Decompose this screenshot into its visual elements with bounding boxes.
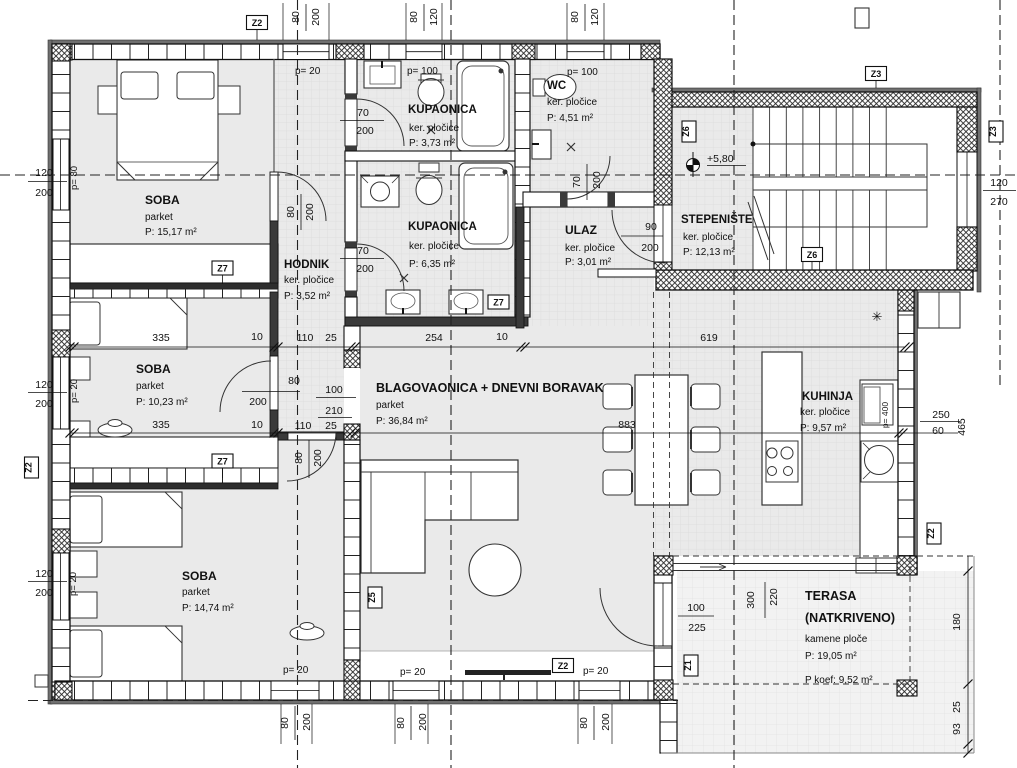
svg-text:Z3: Z3 — [988, 126, 998, 137]
svg-text:200: 200 — [641, 242, 659, 254]
floor TERASA (stone tiles) — [677, 571, 974, 753]
ceiling lamp symbol SOBA2 — [98, 423, 132, 437]
wall SOBA2/HODNIK lower — [270, 410, 278, 436]
opening corridor to living room (100) — [344, 368, 360, 424]
bottom wall hatch right corner — [654, 681, 672, 700]
bottom wall hatch left corner — [55, 682, 72, 700]
door opening KUPAONICA1 — [345, 99, 357, 146]
svg-text:ker. pločice: ker. pločice — [409, 123, 459, 134]
svg-text:93: 93 — [951, 723, 963, 735]
floor SOBA 3 entry notch — [278, 436, 344, 490]
svg-text:Z3: Z3 — [871, 69, 882, 79]
closet strip SOBA2 south — [70, 468, 278, 483]
WC south wall — [523, 192, 654, 207]
wardrobe SOBA1 — [70, 244, 278, 283]
svg-text:Z1: Z1 — [683, 660, 693, 671]
dining chair right — [691, 384, 720, 409]
svg-text:p= 20: p= 20 — [295, 66, 321, 77]
svg-text:(NATKRIVENO): (NATKRIVENO) — [805, 611, 895, 625]
svg-text:p= 100: p= 100 — [567, 67, 598, 78]
hatch kitchen wall top — [898, 290, 914, 311]
svg-text:P: 12,13 m²: P: 12,13 m² — [683, 247, 735, 258]
wall between bathrooms — [345, 151, 530, 161]
top wall corner hatch — [55, 44, 72, 60]
svg-text:HODNIK: HODNIK — [284, 259, 330, 271]
staircase walk line start dot — [751, 142, 756, 147]
kitchen east exterior wall — [898, 290, 914, 575]
svg-text:Z7: Z7 — [217, 264, 228, 274]
bottom door dim group 3 (80/200) — [577, 704, 579, 744]
washbasin KUPAONICA1 — [364, 61, 401, 88]
stair window (120/270) — [957, 152, 977, 227]
built-in oven/fridge — [862, 384, 893, 425]
pillow SOBA3 b — [70, 630, 102, 677]
axis horizontal bottom — [28, 700, 678, 702]
svg-text:200: 200 — [35, 398, 53, 410]
svg-text:110: 110 — [297, 332, 314, 344]
wall SOBA2/SOBA3 — [70, 483, 278, 489]
svg-text:80: 80 — [279, 717, 291, 729]
svg-text:300: 300 — [745, 591, 757, 609]
round rug / coffee table — [469, 544, 521, 596]
floor SOBA 3 (parquet) — [70, 490, 344, 681]
svg-text:Z6: Z6 — [807, 250, 818, 260]
bed SOBA1 double bed — [117, 60, 218, 180]
svg-text:Z2: Z2 — [558, 661, 569, 671]
top wall hatch pier 2 — [336, 44, 364, 60]
nightstand SOBA2 a — [66, 357, 90, 380]
svg-text:P: 6,35 m²: P: 6,35 m² — [409, 259, 456, 270]
svg-text:110: 110 — [295, 420, 312, 432]
svg-text:180: 180 — [951, 613, 963, 631]
svg-text:P: 3,52 m²: P: 3,52 m² — [284, 291, 331, 302]
svg-text:Z2: Z2 — [24, 462, 34, 473]
stair west wall below entry door — [654, 262, 672, 270]
door swing entry — [612, 210, 665, 263]
svg-text:parket: parket — [136, 381, 164, 392]
floor drain KUPAONICA2 — [400, 274, 408, 282]
floor KUPAONICA 2 (tiles) — [357, 161, 515, 317]
washbasin KUPAONICA2 a — [386, 290, 420, 314]
wall tag Z6 stair left (rotated) — [682, 121, 696, 142]
wall tag Z2 top — [247, 16, 268, 30]
svg-text:p= 20: p= 20 — [583, 666, 609, 677]
axis vertical 1 — [297, 0, 299, 768]
staircase railing outline — [753, 144, 927, 227]
washbasin WC — [532, 130, 551, 159]
wall below terrace level — [660, 700, 677, 753]
terrace free column — [897, 680, 917, 696]
svg-text:ker. pločice: ker. pločice — [284, 275, 334, 286]
svg-text:P: 9,57 m²: P: 9,57 m² — [800, 423, 847, 434]
living room west wall hatch bottom — [344, 660, 360, 681]
floor ULAZ (tiles) — [524, 199, 654, 329]
svg-text:70: 70 — [357, 245, 369, 257]
stair block right wall lower — [957, 227, 977, 271]
TV sideboard — [465, 670, 551, 675]
wall tag Z1 terrace (rotated) — [684, 655, 698, 676]
bottom wall hatch pier mid — [344, 681, 360, 700]
svg-text:KUPAONICA: KUPAONICA — [408, 221, 477, 233]
WC door opening — [567, 192, 608, 207]
door swing WC — [567, 156, 610, 199]
floor KUHINJA zone (tiles) — [654, 290, 898, 556]
top exterior wall — [55, 44, 660, 60]
svg-text:P koef: 9,52 m²: P koef: 9,52 m² — [805, 675, 873, 686]
svg-text:120: 120 — [35, 568, 53, 580]
staircase break line — [748, 202, 768, 260]
svg-text:STEPENIŠTE: STEPENIŠTE — [681, 213, 753, 226]
level mark +5,80 — [687, 159, 700, 172]
wall tag Z2 kitchen right (rotated) — [927, 523, 941, 544]
svg-text:200: 200 — [35, 187, 53, 199]
wall tag Z6 stair bottom — [802, 248, 823, 262]
svg-text:200: 200 — [600, 713, 612, 731]
stair block bottom wall (hatched) — [656, 270, 973, 290]
terrace slab edge bottom — [661, 752, 974, 754]
svg-text:p= 20: p= 20 — [68, 572, 79, 596]
svg-text:210: 210 — [325, 405, 343, 417]
beam slope arrow — [700, 564, 726, 570]
bed SOBA3 single bed b — [67, 626, 182, 681]
floor HODNIK (tiles) — [274, 59, 345, 432]
door bottom 1 (80/200 p=20) — [271, 681, 319, 700]
top wall hatch pier 4 — [641, 44, 660, 60]
pillow SOBA2 — [69, 302, 100, 345]
toilet WC — [533, 79, 545, 96]
wall SOBA1/SOBA2 — [70, 283, 278, 289]
window left 3 (120/200 p=20) — [53, 553, 69, 620]
hatch SE top corner — [654, 556, 673, 575]
svg-text:200: 200 — [310, 8, 322, 26]
stair block right wall upper — [957, 107, 977, 152]
svg-text:25: 25 — [951, 701, 963, 713]
projection lines of upper floor over living room — [653, 292, 655, 556]
svg-text:P: 3,73 m²: P: 3,73 m² — [409, 138, 456, 149]
svg-text:200: 200 — [249, 396, 267, 408]
wall notch top with SOBA3 door — [278, 432, 345, 440]
svg-text:P: 15,17 m²: P: 15,17 m² — [145, 227, 197, 238]
terrace covered-area dashed boundary — [673, 555, 910, 557]
wall SOBA2/HODNIK upper — [270, 292, 278, 356]
left wall hatch pier 3 — [52, 529, 70, 553]
svg-text:200: 200 — [304, 203, 316, 221]
left exterior wall — [52, 44, 70, 699]
svg-text:BLAGOVAONICA + DNEVNI BORAVAK: BLAGOVAONICA + DNEVNI BORAVAK — [376, 381, 604, 395]
dimension chain upper (335/10/110/25/254/10/619) — [70, 346, 905, 348]
wall bathrooms/WC — [515, 59, 530, 317]
svg-text:ker. pločice: ker. pločice — [565, 243, 615, 254]
terrace edge beam — [673, 563, 897, 565]
svg-text:parket: parket — [376, 400, 404, 411]
svg-text:TERASA: TERASA — [805, 589, 856, 603]
top window dim group 1 (80/200) — [282, 3, 284, 40]
bathroom south wall — [345, 317, 528, 326]
door swing SOBA1 — [277, 172, 326, 221]
floor SOBA 1 (parquet) — [70, 59, 278, 286]
wall SOBA1/HODNIK thin upper line — [273, 59, 275, 172]
stair/WC west wall (hatched) — [654, 59, 672, 205]
floor drain WC — [567, 143, 575, 151]
bathtub KUPAONICA2 — [459, 163, 513, 249]
svg-text:p= 20: p= 20 — [69, 379, 80, 403]
door swing terrace — [600, 588, 658, 646]
door swing KUPAONICA2 — [357, 244, 404, 291]
svg-text:ULAZ: ULAZ — [565, 223, 597, 237]
svg-text:10: 10 — [496, 331, 508, 343]
wall tag Z7 wardrobe1 — [212, 261, 233, 275]
window top 3 (80/120) — [567, 44, 604, 60]
svg-text:60: 60 — [932, 425, 944, 437]
kitchen cabinets at terrace edge — [856, 558, 897, 573]
svg-text:120: 120 — [589, 8, 601, 26]
nightstand SOBA1 left — [98, 86, 117, 114]
wall tag Z3 right (rotated) — [989, 121, 1003, 142]
door opening KUPAONICA2 — [345, 248, 357, 291]
svg-text:80: 80 — [290, 11, 302, 23]
svg-text:Z5: Z5 — [367, 592, 377, 603]
svg-text:200: 200 — [35, 587, 53, 599]
svg-text:p= 100: p= 100 — [407, 66, 438, 77]
svg-text:220: 220 — [768, 588, 780, 606]
left wall hatch bottom corner — [52, 682, 70, 699]
svg-text:25: 25 — [325, 420, 337, 432]
nightstand SOBA1 right — [218, 86, 240, 114]
svg-text:Z7: Z7 — [493, 298, 504, 308]
svg-text:ker. pločice: ker. pločice — [800, 407, 850, 418]
svg-text:120: 120 — [428, 8, 440, 26]
living room west wall hatch a — [344, 350, 360, 368]
terrace slab edge right — [973, 556, 975, 753]
staircase risers lower flight — [752, 190, 754, 270]
window top 2 (80/120) — [406, 44, 442, 60]
floor living room (parquet) — [357, 326, 672, 651]
living room west wall upper — [344, 326, 360, 350]
top window dim group 3 (80/120) — [566, 3, 568, 40]
svg-text:200: 200 — [417, 713, 429, 731]
terrace door opening (100/225) — [654, 583, 672, 646]
entry door opening (90/200) — [654, 205, 672, 262]
wall tag Z7 wardrobe2 — [212, 454, 233, 468]
svg-text:619: 619 — [700, 332, 718, 344]
svg-text:SOBA: SOBA — [136, 362, 171, 376]
svg-text:270: 270 — [990, 196, 1008, 208]
bed SOBA3 single bed a — [67, 492, 182, 547]
dining chair right — [691, 427, 720, 452]
kitchen island — [762, 352, 802, 505]
svg-text:335: 335 — [152, 419, 170, 431]
svg-text:p= 20: p= 20 — [283, 665, 309, 676]
living room west wall hatch b — [344, 424, 360, 440]
door swing SOBA3 — [287, 432, 336, 481]
svg-text:p= 20: p= 20 — [400, 667, 426, 678]
wall tag Z5 (rotated) — [368, 587, 382, 608]
floor WC (tiles) — [528, 59, 654, 192]
svg-text:✳: ✳ — [872, 309, 883, 324]
left wall hatch pier 2 — [52, 330, 70, 357]
wall tag Z7 bathroom — [488, 295, 509, 309]
door opening SOBA1 — [270, 172, 278, 221]
left wall hatch top corner — [52, 44, 70, 61]
axis vertical 4 — [999, 0, 1001, 390]
svg-text:ker. pločice: ker. pločice — [409, 241, 459, 252]
door dim SOBA1 80/200 (rotated) — [300, 194, 302, 230]
svg-text:10: 10 — [251, 331, 263, 343]
dimension chain lower (335/10/110/25/883) — [70, 432, 958, 434]
floor SOBA 2 (parquet) — [70, 292, 278, 483]
small ledge bottom left — [35, 675, 48, 687]
svg-text:200: 200 — [356, 125, 374, 137]
pillow SOBA3 a — [70, 496, 102, 543]
svg-text:Z6: Z6 — [681, 126, 691, 137]
svg-text:p= 80: p= 80 — [69, 166, 80, 190]
floor KUPAONICA 1 (tiles) — [357, 59, 515, 151]
svg-text:883: 883 — [618, 419, 636, 431]
dining table — [635, 375, 688, 505]
svg-text:70: 70 — [571, 176, 583, 188]
floor drain KUPAONICA1 — [427, 126, 435, 134]
wall tag Z2 left (rotated) — [25, 457, 39, 478]
svg-text:80: 80 — [578, 717, 590, 729]
window top 1 (80/200) — [283, 44, 329, 60]
svg-text:80: 80 — [293, 452, 305, 464]
top window dim group 2 (80/120) — [405, 3, 407, 40]
svg-text:80: 80 — [408, 11, 420, 23]
dining chair right — [691, 470, 720, 495]
bottom door dim group 1 (80/200) — [280, 704, 282, 744]
svg-text:P: 19,05 m²: P: 19,05 m² — [805, 651, 857, 662]
toilet KUPAONICA1 — [421, 74, 441, 83]
svg-text:200: 200 — [356, 263, 374, 275]
door swing KUPAONICA1 — [357, 99, 404, 146]
stair block top wall (hatched) — [656, 92, 977, 107]
svg-text:KUHINJA: KUHINJA — [802, 391, 853, 403]
white parapet strip along living room south wall — [357, 651, 654, 681]
door dim SOBA3 80/200 (rotated) — [308, 440, 310, 478]
bed SOBA2 single bed — [64, 298, 187, 349]
door bottom 2 (80/200 p=20) — [393, 681, 439, 700]
svg-text:Z7: Z7 — [217, 457, 228, 467]
svg-text:120: 120 — [35, 167, 53, 179]
wardrobe SOBA2 — [70, 437, 278, 468]
svg-text:80: 80 — [395, 717, 407, 729]
svg-text:25: 25 — [325, 332, 337, 344]
svg-text:parket: parket — [145, 212, 173, 223]
axis vertical 2 — [450, 0, 452, 768]
svg-text:P: 14,74 m²: P: 14,74 m² — [182, 603, 234, 614]
svg-text:200: 200 — [591, 171, 603, 189]
washing machine KUPAONICA2 — [361, 176, 399, 207]
door swing SOBA2 — [220, 361, 271, 412]
door dim WC 70/200 (rotated) — [586, 164, 588, 200]
svg-text:P: 4,51 m²: P: 4,51 m² — [547, 113, 594, 124]
svg-text:90: 90 — [645, 221, 657, 233]
wall tag Z3 top right — [866, 67, 887, 81]
nightstand SOBA3 b — [66, 592, 97, 618]
svg-text:ker. pločice: ker. pločice — [683, 232, 733, 243]
cooktop on island — [766, 441, 798, 482]
window left 2 (120/200 p=20) — [53, 357, 69, 429]
svg-text:335: 335 — [152, 332, 170, 344]
kitchen counter along east wall — [860, 380, 898, 566]
wall tag Z2 bottom — [553, 659, 574, 673]
staircase mid landing lines — [753, 176, 927, 178]
svg-text:200: 200 — [301, 713, 313, 731]
pillows SOBA1 — [121, 72, 158, 99]
top wall hatch pier 3 — [512, 44, 535, 60]
kitchen sink — [861, 441, 898, 482]
dining chair left — [603, 470, 632, 495]
svg-text:P: 36,84 m²: P: 36,84 m² — [376, 416, 428, 427]
ceiling lamp symbol SOBA3 — [290, 626, 324, 640]
southeast wall with terrace door — [654, 556, 672, 700]
dining chair left — [603, 384, 632, 409]
terrace dim line right (180/25/93) — [967, 556, 969, 753]
svg-text:WC: WC — [547, 80, 566, 92]
svg-text:KUPAONICA: KUPAONICA — [408, 104, 477, 116]
svg-text:100: 100 — [325, 384, 343, 396]
couch living room (L-shaped) — [361, 460, 518, 573]
staircase risers upper flight — [752, 107, 754, 177]
hatch SE bottom — [654, 680, 673, 700]
svg-text:10: 10 — [251, 419, 263, 431]
svg-text:250: 250 — [932, 409, 950, 421]
svg-text:P: 3,01 m²: P: 3,01 m² — [565, 257, 612, 268]
bottom door dim group 2 (80/200) — [394, 704, 396, 744]
svg-text:parket: parket — [182, 587, 210, 598]
chimney block — [918, 292, 960, 328]
nightstand SOBA2 b — [66, 421, 90, 444]
threshold strip below entry — [598, 269, 656, 277]
nightstand SOBA3 a — [66, 551, 97, 577]
washbasin KUPAONICA2 b — [449, 290, 483, 314]
svg-text:120: 120 — [990, 177, 1008, 189]
ULAZ west wall — [516, 207, 524, 328]
living room west wall lower — [344, 440, 360, 660]
svg-text:70: 70 — [357, 107, 369, 119]
svg-text:Z2: Z2 — [926, 528, 936, 539]
svg-text:200: 200 — [312, 449, 324, 467]
toilet KUPAONICA2 — [419, 163, 439, 172]
svg-text:80: 80 — [569, 11, 581, 23]
svg-text:225: 225 — [688, 622, 706, 634]
svg-text:ker. pločice: ker. pločice — [547, 97, 597, 108]
dining chair left — [603, 427, 632, 452]
bathroom west wall — [345, 59, 357, 94]
exterior wall outer insulation stripes — [50, 40, 660, 44]
bottom exterior wall — [55, 681, 672, 700]
svg-text:80: 80 — [288, 375, 300, 387]
door opening SOBA2 — [270, 356, 278, 410]
bathtub KUPAONICA1 — [457, 61, 509, 151]
svg-text:120: 120 — [35, 379, 53, 391]
svg-text:P: 10,23 m²: P: 10,23 m² — [136, 397, 188, 408]
svg-text:SOBA: SOBA — [182, 569, 217, 583]
svg-text:465: 465 — [956, 418, 968, 436]
svg-text:kamene ploče: kamene ploče — [805, 634, 868, 645]
hatch kitchen wall bottom / terrace pier — [897, 556, 917, 575]
terrace opening dim 300/220 (rotated) — [764, 582, 766, 618]
svg-text:SOBA: SOBA — [145, 193, 180, 207]
floor stair landing (tiles) — [672, 107, 753, 270]
small roof bump top right — [855, 8, 869, 28]
svg-text:p= 400: p= 400 — [880, 402, 890, 429]
svg-text:254: 254 — [425, 332, 443, 344]
wall SOBA1/HODNIK lower — [270, 221, 278, 292]
svg-text:+5,80: +5,80 — [707, 153, 734, 165]
axis horizontal main — [0, 174, 1017, 176]
svg-text:Z2: Z2 — [252, 18, 263, 28]
